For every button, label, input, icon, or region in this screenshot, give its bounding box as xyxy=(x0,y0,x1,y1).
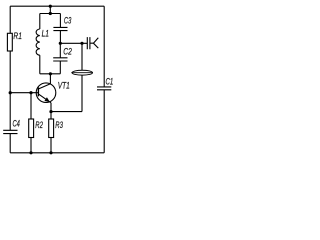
collector lead inside VT1 xyxy=(39,84,51,89)
node: base/R2 junction xyxy=(29,91,32,94)
svg-text:R2: R2 xyxy=(35,120,43,130)
wire: quartz bottom stem xyxy=(81,75,83,112)
resistor R2 xyxy=(29,119,34,138)
capacitor C3 xyxy=(53,27,67,30)
wire: tank top sub-wire xyxy=(40,13,61,15)
wire: R2 bottom stem xyxy=(30,138,32,153)
resistor R1 xyxy=(7,33,12,51)
node: R2 bottom xyxy=(29,151,32,154)
node: C3/C2 junction xyxy=(59,42,62,45)
emitter lead of VT1 xyxy=(39,94,51,103)
node: top rail junction xyxy=(49,5,52,8)
wire: top supply rail xyxy=(10,5,104,7)
antenna WA1 xyxy=(90,38,98,48)
wire: right rail lower (C1 to bottom rail) xyxy=(103,90,105,153)
capacitor C4 xyxy=(3,130,17,133)
svg-text:C4: C4 xyxy=(13,118,20,128)
coupling capacitor (antenna) plates xyxy=(87,37,90,49)
wire: quartz to emitter node xyxy=(51,111,82,113)
wire: collector vertical xyxy=(49,74,51,84)
wire: emitter vertical xyxy=(50,103,52,112)
wire: left rail upper (rail to R1 top) xyxy=(9,6,11,33)
wire: L1 top stem xyxy=(39,14,41,30)
node: tank sub-wire junction xyxy=(49,12,52,15)
wire: left rail middle (R1 bottom to C4 top, through base node) xyxy=(9,51,11,130)
svg-text:C2: C2 xyxy=(63,47,72,57)
wire: C3 bottom stem to junction xyxy=(59,31,61,44)
capacitor C1 xyxy=(97,87,111,90)
wire: C2 bottom stem xyxy=(59,61,61,74)
wire: left rail lower (C4 bottom to bottom rail) xyxy=(9,134,11,153)
background xyxy=(0,0,116,160)
wire: drop from top rail to tank sub-wire xyxy=(49,6,51,13)
inductor L1 xyxy=(36,29,40,55)
base bar of VT1 xyxy=(37,87,39,96)
svg-text:VT1: VT1 xyxy=(58,81,70,91)
wire: R3 top stem xyxy=(50,112,52,119)
resistor R3 xyxy=(49,119,54,138)
wire: C3 top stem xyxy=(59,14,61,28)
node: base on left rail xyxy=(9,91,12,94)
wire: R3 bottom stem xyxy=(50,138,52,153)
svg-text:C3: C3 xyxy=(64,16,71,26)
node: quartz/antenna junction xyxy=(80,42,83,45)
wire: bottom rail xyxy=(10,152,104,154)
svg-text:R1: R1 xyxy=(13,31,22,41)
node: collector junction xyxy=(49,72,52,75)
svg-text:C1: C1 xyxy=(106,76,114,86)
emitter arrow of VT1 xyxy=(44,97,50,102)
transistor VT1 xyxy=(36,83,56,103)
wire: junction to C2 top xyxy=(59,43,61,58)
quartz resonator ZQ1 (disc symbol) xyxy=(72,70,92,75)
node: emitter junction xyxy=(49,110,52,113)
svg-text:L1: L1 xyxy=(42,28,49,38)
wire: junction to antenna coupling capacitor xyxy=(60,42,87,44)
capacitor C2 xyxy=(53,58,67,61)
wire: right rail upper (top rail to C1) xyxy=(103,6,105,87)
wire: horizontal collector-node wire xyxy=(40,73,61,75)
wire: L1 bottom stem xyxy=(39,55,41,74)
svg-text:R3: R3 xyxy=(55,120,63,130)
node: R3 bottom xyxy=(49,151,52,154)
wire: quartz top stem xyxy=(81,43,83,70)
wire: base wire xyxy=(10,92,38,94)
wire: R2 top stem xyxy=(30,93,32,119)
